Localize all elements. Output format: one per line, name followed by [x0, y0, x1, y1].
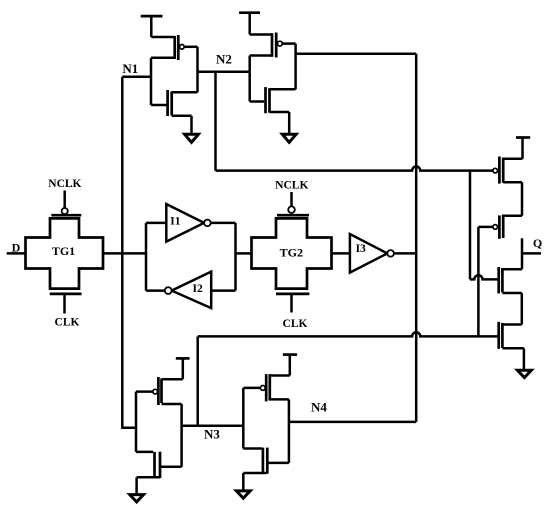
wire I3 output to bus: [394, 252, 416, 255]
ground GND4: [236, 473, 250, 498]
node Q wire: [522, 252, 541, 255]
svg-text:D: D: [12, 241, 21, 255]
power VDD1: [141, 16, 163, 37]
node N2 wire: [198, 70, 250, 73]
svg-text:NCLK: NCLK: [48, 178, 81, 190]
svg-text:N2: N2: [216, 52, 232, 67]
svg-text:I2: I2: [192, 283, 202, 295]
wire latch left rail: [145, 223, 148, 291]
transistor MP6 (output stack PMOS bottom): [478, 215, 522, 239]
transmission gate TG1: [26, 191, 104, 314]
transistor MP2 (top-right PMOS): [250, 33, 296, 58]
wire MP5 drain to MP6 source: [521, 182, 524, 216]
wire rail A (net B to MN5 gate): [469, 171, 472, 280]
wire pair4 gate rail: [242, 388, 245, 449]
ground GND5: [518, 348, 532, 377]
wire G2 to bus: [296, 53, 417, 56]
node N4 wire: [289, 421, 416, 424]
svg-text:TG1: TG1: [52, 244, 75, 258]
transistor MN4 (bottom-right NMOS): [243, 448, 289, 474]
wire N2 cross-couple (MP1 gate / MN1 drain): [196, 47, 199, 92]
svg-text:I1: I1: [170, 215, 180, 227]
svg-text:N3: N3: [204, 426, 220, 441]
wire TG2 output to I3: [332, 252, 350, 255]
transistor MN6 (output stack NMOS bottom): [499, 322, 524, 349]
wire TG1 output to latch: [103, 252, 146, 255]
wire N1 drain drop (MP1 drain to MN1 gate): [150, 58, 153, 105]
transistor MP4 (bottom-right PMOS): [243, 374, 289, 401]
node N1 wire: [122, 76, 151, 79]
wire G2 cross-couple (MP2 gate / MN2 drain): [294, 44, 297, 90]
svg-text:Q: Q: [533, 236, 542, 250]
transistor MP5 (output stack PMOS top): [493, 157, 523, 184]
wire vertical bus (G2 / I3 out / N4 net): [415, 54, 418, 422]
wire pair3 gate rail: [135, 392, 138, 452]
ground GND3: [130, 477, 144, 502]
svg-text:NCLK: NCLK: [275, 180, 308, 192]
transistor MN2 (top-right NMOS): [250, 87, 296, 113]
power VDD4: [283, 355, 297, 376]
wire MP6 drain to MN5 drain with Q tap: [521, 238, 524, 269]
inverter I2: [146, 272, 236, 309]
transistor MN5 (output stack NMOS top): [470, 267, 522, 293]
svg-text:N4: N4: [311, 400, 327, 415]
node N3 wire: [182, 425, 244, 428]
wire N4 drain chain: [288, 399, 291, 463]
inverter I1: [146, 204, 236, 242]
ground GND1: [185, 116, 199, 143]
wire MN5 source to MN6 drain: [521, 293, 524, 325]
wire D input lead: [7, 252, 26, 255]
transistor MN1 (top-left NMOS): [151, 90, 198, 116]
transistor MN3 (bottom-left NMOS): [136, 452, 182, 478]
ground GND2: [282, 112, 296, 142]
wire latch output tap to TG2: [236, 252, 252, 255]
wire N1 feedback to pair3 gate rail: [122, 77, 136, 428]
wire N3 drain chain: [180, 404, 183, 467]
power VDD2: [239, 13, 260, 35]
svg-text:N1: N1: [122, 61, 138, 76]
svg-text:TG2: TG2: [280, 246, 303, 260]
transistor MP3 (bottom-left PMOS): [136, 377, 183, 405]
svg-text:CLK: CLK: [55, 317, 80, 329]
wire rail B (net C to MP6 gate): [477, 227, 480, 337]
power VDD3: [176, 358, 190, 379]
wire latch right rail: [234, 223, 237, 291]
svg-text:CLK: CLK: [283, 318, 308, 330]
inverter I3: [350, 234, 394, 273]
power VDD5 (output stage): [516, 138, 530, 159]
wire net C (N3 net to output stage, hop over bus): [198, 332, 498, 425]
wire N2 drain drop (MP2 drain to MN2 gate): [248, 56, 251, 102]
transistor MP1 (top-left PMOS): [151, 35, 198, 60]
svg-text:I3: I3: [356, 243, 366, 255]
transmission gate TG2: [252, 192, 332, 313]
wire N2 to output stage (net B horizontal with hop over bus): [216, 72, 493, 171]
